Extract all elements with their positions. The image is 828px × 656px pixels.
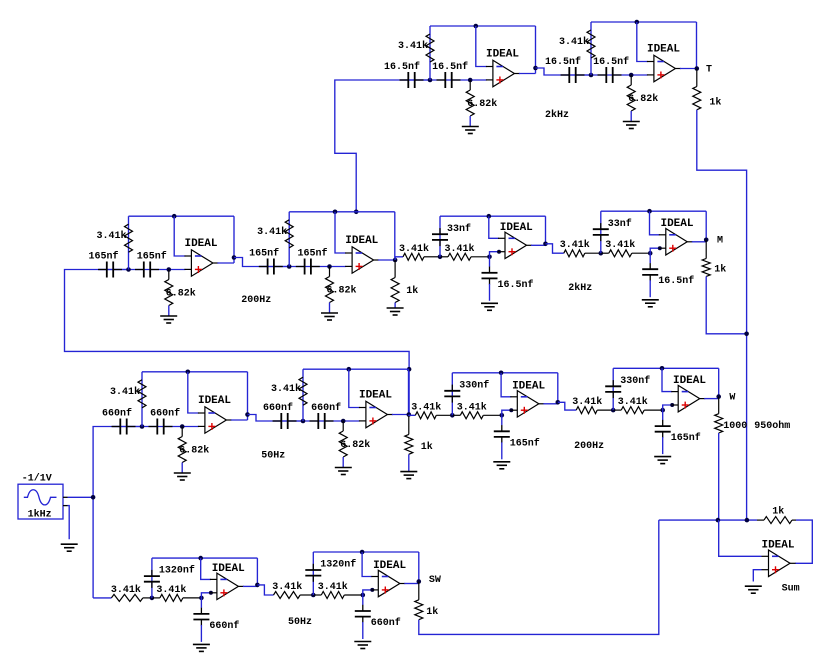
svg-text:M: M <box>717 236 723 247</box>
svg-text:3.41k: 3.41k <box>559 36 589 48</box>
svg-text:-1/1V: -1/1V <box>22 473 52 485</box>
svg-text:IDEAL: IDEAL <box>345 235 378 247</box>
svg-text:IDEAL: IDEAL <box>373 560 406 572</box>
svg-text:660nf: 660nf <box>311 402 341 414</box>
svg-text:1k: 1k <box>406 285 418 297</box>
svg-text:16.5nf: 16.5nf <box>498 279 534 291</box>
svg-text:1k: 1k <box>714 264 726 276</box>
svg-text:1k: 1k <box>426 606 438 618</box>
svg-text:200Hz: 200Hz <box>574 441 604 452</box>
svg-text:1320nf: 1320nf <box>159 565 195 577</box>
svg-text:6.82k: 6.82k <box>327 285 357 297</box>
svg-text:IDEAL: IDEAL <box>647 44 680 56</box>
svg-text:3.41k: 3.41k <box>318 581 348 593</box>
svg-text:3.41k: 3.41k <box>257 226 287 238</box>
svg-text:6.82k: 6.82k <box>467 98 497 110</box>
svg-text:3.41k: 3.41k <box>110 386 140 398</box>
svg-text:3.41k: 3.41k <box>156 584 186 596</box>
svg-text:3.41k: 3.41k <box>111 584 141 596</box>
svg-text:3.41k: 3.41k <box>560 239 590 251</box>
svg-text:IDEAL: IDEAL <box>359 390 392 402</box>
svg-text:3.41k: 3.41k <box>411 401 441 413</box>
svg-text:6.82k: 6.82k <box>628 93 658 105</box>
svg-text:33nf: 33nf <box>447 223 471 235</box>
svg-text:200Hz: 200Hz <box>241 295 271 306</box>
svg-text:50Hz: 50Hz <box>288 617 312 628</box>
svg-text:660nf: 660nf <box>263 402 293 414</box>
svg-text:3.41k: 3.41k <box>457 401 487 413</box>
svg-text:Sum: Sum <box>782 584 800 595</box>
svg-text:1kHz: 1kHz <box>28 508 52 520</box>
svg-text:165nf: 165nf <box>137 251 167 263</box>
svg-text:IDEAL: IDEAL <box>660 218 693 230</box>
svg-text:950ohm: 950ohm <box>754 420 790 432</box>
svg-text:3.41k: 3.41k <box>399 243 429 255</box>
svg-text:W: W <box>729 393 735 404</box>
svg-text:IDEAL: IDEAL <box>512 380 545 392</box>
svg-text:16.5nf: 16.5nf <box>384 61 420 73</box>
svg-text:3.41k: 3.41k <box>271 383 301 395</box>
svg-text:1320nf: 1320nf <box>320 559 356 571</box>
svg-text:3.41k: 3.41k <box>272 581 302 593</box>
svg-text:330nf: 330nf <box>459 379 489 391</box>
svg-text:IDEAL: IDEAL <box>761 540 794 552</box>
svg-text:16.5nf: 16.5nf <box>432 61 468 73</box>
svg-text:165nf: 165nf <box>297 248 327 260</box>
svg-text:1k: 1k <box>772 506 784 518</box>
svg-text:660nf: 660nf <box>371 617 401 629</box>
svg-text:165nf: 165nf <box>88 251 118 263</box>
svg-text:2kHz: 2kHz <box>545 109 569 121</box>
svg-text:50Hz: 50Hz <box>261 451 285 462</box>
svg-text:330nf: 330nf <box>620 375 650 387</box>
svg-text:3.41k: 3.41k <box>398 40 428 52</box>
svg-text:IDEAL: IDEAL <box>486 49 519 61</box>
svg-text:IDEAL: IDEAL <box>184 238 217 250</box>
svg-text:IDEAL: IDEAL <box>673 375 706 387</box>
svg-text:3.41k: 3.41k <box>572 396 602 408</box>
svg-text:1k: 1k <box>709 97 721 109</box>
svg-text:165nf: 165nf <box>510 437 540 449</box>
svg-text:33nf: 33nf <box>608 218 632 230</box>
svg-text:16.5nf: 16.5nf <box>545 56 581 68</box>
svg-text:3.41k: 3.41k <box>96 230 126 242</box>
svg-text:IDEAL: IDEAL <box>198 395 231 407</box>
svg-text:6.82k: 6.82k <box>179 445 209 457</box>
svg-text:3.41k: 3.41k <box>618 396 648 408</box>
svg-text:1k: 1k <box>421 441 433 453</box>
svg-text:3.41k: 3.41k <box>605 239 635 251</box>
svg-text:165nf: 165nf <box>249 248 279 260</box>
svg-text:1000: 1000 <box>723 421 747 432</box>
svg-text:165nf: 165nf <box>671 432 701 444</box>
svg-text:660nf: 660nf <box>102 408 132 420</box>
svg-text:T: T <box>706 64 712 75</box>
svg-text:16.5nf: 16.5nf <box>658 275 694 287</box>
svg-text:IDEAL: IDEAL <box>212 563 245 575</box>
svg-text:2kHz: 2kHz <box>568 282 592 294</box>
svg-text:660nf: 660nf <box>150 408 180 420</box>
svg-text:SW: SW <box>429 575 441 586</box>
svg-text:6.82k: 6.82k <box>340 439 370 451</box>
svg-text:660nf: 660nf <box>209 620 239 632</box>
svg-text:6.82k: 6.82k <box>166 288 196 300</box>
svg-text:3.41k: 3.41k <box>444 243 474 255</box>
svg-text:16.5nf: 16.5nf <box>593 56 629 68</box>
svg-text:IDEAL: IDEAL <box>500 222 533 234</box>
